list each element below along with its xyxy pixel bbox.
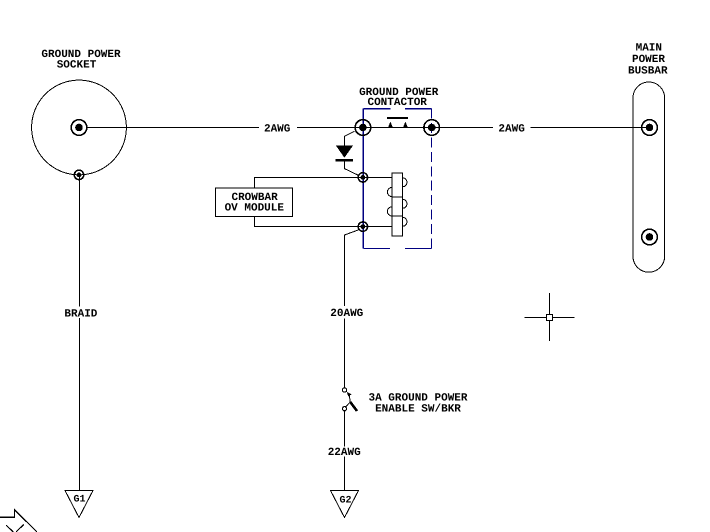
svg-text:3A GROUND POWER: 3A GROUND POWER — [368, 392, 467, 404]
main power busbar body — [633, 82, 665, 272]
contactor coil K1 — [387, 173, 407, 236]
wire 2AWG label to busbar terminal — [531, 127, 650, 129]
contactor terminal left — [355, 120, 371, 136]
wire upper coil terminal to crowbar module — [255, 178, 363, 189]
svg-text:ENABLE SW/BKR: ENABLE SW/BKR — [375, 404, 461, 416]
wire terminal to diode anode — [345, 131, 355, 145]
svg-text:POWER: POWER — [632, 54, 665, 66]
svg-text:MAIN: MAIN — [636, 42, 662, 54]
switch S1 3A ground power enable — [342, 388, 357, 411]
ground power socket J1 body — [32, 80, 127, 175]
wire across contactor — [363, 127, 432, 129]
svg-text:OV MODULE: OV MODULE — [225, 202, 285, 214]
wire BRAID label to ground G1 — [79, 318, 81, 491]
contactor main contact bar — [387, 117, 408, 119]
socket center terminal — [71, 120, 87, 136]
crowbar ov module label — [225, 192, 285, 215]
wire 2AWG label to contactor terminal — [297, 127, 363, 129]
diode D1 — [336, 145, 354, 161]
wire upper coil terminal to coil — [363, 177, 392, 179]
wire socket to 2AWG label — [87, 127, 259, 129]
wire lower coil terminal to coil — [363, 226, 392, 228]
contact fixed point left — [388, 121, 393, 127]
svg-text:G2: G2 — [339, 496, 351, 507]
main power busbar label — [628, 42, 668, 77]
wire 20AWG label to switch — [344, 319, 346, 388]
contactor dashed enclosure — [363, 109, 431, 249]
ground power contactor label — [359, 87, 439, 109]
contactor terminal right — [424, 120, 440, 136]
wire lower coil terminal down to switch — [345, 230, 359, 306]
svg-text:20AWG: 20AWG — [330, 308, 363, 320]
wire lower coil terminal to crowbar module — [255, 216, 363, 226]
coil terminal lower — [358, 222, 367, 231]
wire switch to 22AWG label — [344, 411, 346, 447]
UCS icon (partial, bottom-left) — [0, 510, 37, 532]
crowbar ov module box — [216, 188, 293, 216]
svg-text:2AWG: 2AWG — [264, 123, 291, 135]
wire socket shell down to BRAID label — [79, 175, 81, 306]
svg-text:2AWG: 2AWG — [498, 123, 525, 135]
crosshair cursor — [524, 293, 574, 341]
switch label — [368, 392, 467, 415]
coil terminal upper — [358, 173, 367, 182]
busbar terminal lower — [642, 229, 658, 245]
svg-text:BUSBAR: BUSBAR — [628, 65, 668, 77]
ground G2 — [331, 491, 359, 518]
ground power socket label — [41, 49, 121, 71]
wire diode cathode to coil terminal — [345, 162, 358, 175]
svg-text:SOCKET: SOCKET — [57, 59, 97, 71]
busbar terminal upper — [642, 120, 658, 136]
contact fixed point right — [403, 121, 408, 127]
wire 22AWG label to ground G2 — [344, 457, 346, 491]
socket shell terminal — [74, 170, 83, 179]
svg-text:CONTACTOR: CONTACTOR — [367, 97, 427, 109]
ground G1 — [65, 491, 93, 518]
wire contactor to 2AWG label right — [432, 127, 494, 129]
svg-text:G1: G1 — [73, 495, 85, 506]
svg-text:BRAID: BRAID — [64, 308, 97, 320]
